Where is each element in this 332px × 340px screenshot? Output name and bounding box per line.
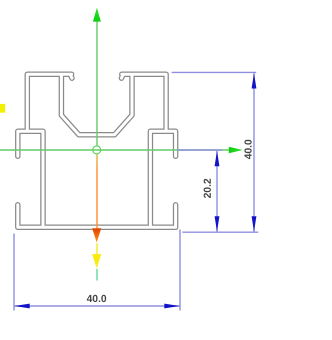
origin circle [93,146,101,154]
force line orange [96,154,98,228]
force arrow orange [92,228,101,242]
Y axis arrow [93,8,101,22]
dimension line 20.2 vertical [216,151,218,232]
dimension extension line bottom right horizontal [182,231,258,233]
dimension extension line bottom-right vertical [179,230,181,311]
Y axis line [96,21,98,146]
extrusion profile (white inner pass) [18,74,176,227]
X axis arrow [229,147,243,154]
dimension line 40.0 bottom [14,305,180,307]
arrow top of 20.2 [215,151,220,167]
label 40.0 bottom [87,295,106,302]
extrusion profile outline (gray pass) [18,74,176,227]
force arrow yellow [92,254,101,268]
arrow top of right 40.0 [252,73,257,89]
dimension extension line bottom-left vertical [13,234,15,311]
dimension line 40.0 right vertical [253,73,255,231]
tail line green [96,269,98,281]
arrow bottom of right 40.0 [252,216,257,232]
X axis line [0,149,229,151]
dimension extension line top right [172,71,257,73]
label 20.2 [204,179,211,198]
yellow marker left edge [0,104,5,113]
label 40.0 vertical [244,140,251,159]
arrow bottom of 20.2 [215,216,220,232]
connector line yellow [96,243,98,254]
arrow left of bottom 40.0 [14,304,30,309]
arrow right of bottom 40.0 [164,304,180,309]
extension line 20.2 top (over green axis) [178,149,223,151]
